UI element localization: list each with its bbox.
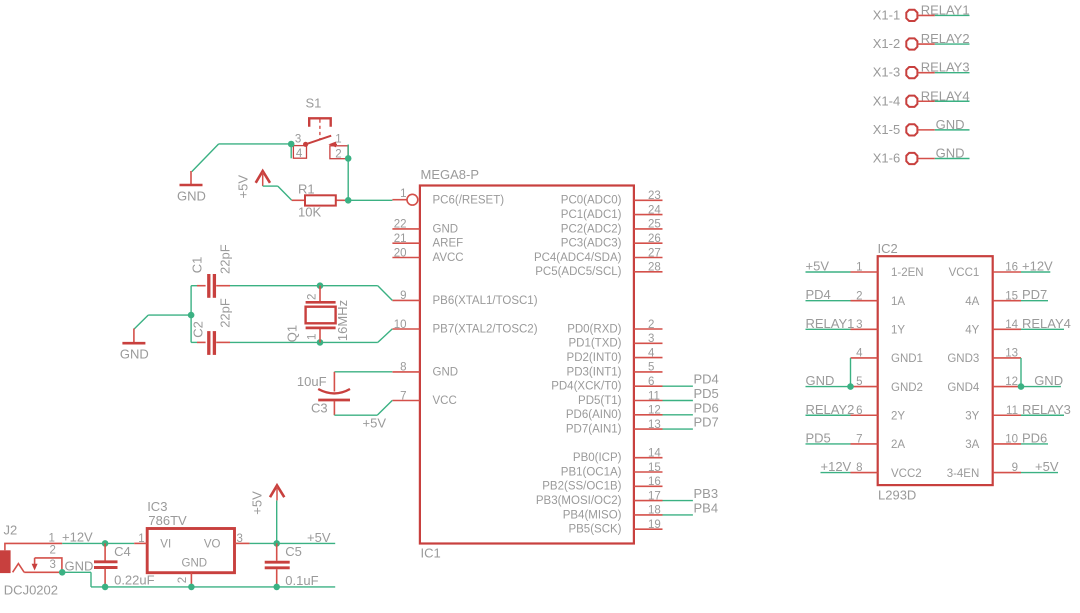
svg-text:10: 10	[1005, 434, 1018, 446]
IC1 pin1 line + bubble	[392, 199, 406, 201]
capacitor C1	[207, 274, 210, 298]
svg-text:9: 9	[1012, 462, 1018, 474]
net PB3 wire+label	[663, 500, 693, 502]
svg-text:10K: 10K	[298, 205, 321, 220]
svg-text:3-4EN: 3-4EN	[947, 468, 980, 480]
svg-text:PD4: PD4	[806, 287, 831, 302]
node XTAL top	[317, 282, 324, 289]
node C4 top	[102, 540, 109, 547]
supply +5V (R1)	[256, 171, 270, 183]
svg-text:L293D: L293D	[878, 488, 916, 503]
svg-text:2: 2	[177, 577, 189, 583]
net RELAY4 wire+label right	[1021, 328, 1064, 330]
IC1 pin 27 PC4(ADC4/SDA)	[634, 257, 663, 259]
svg-text:21: 21	[394, 233, 407, 245]
IC1 pin 28 PC5(ADC5/SCL)	[634, 271, 663, 273]
svg-text:14: 14	[648, 448, 661, 460]
IC2 pin 10 3A	[993, 443, 1021, 445]
net PD6 wire+label	[663, 414, 693, 416]
IC1 pin 20 AVCC	[392, 257, 420, 259]
svg-text:PC4(ADC4/SDA): PC4(ADC4/SDA)	[534, 252, 622, 264]
net GND wire+label left	[806, 386, 851, 388]
net +12V wire+label	[62, 542, 134, 544]
svg-text:X1-1: X1-1	[873, 7, 900, 22]
svg-text:RELAY4: RELAY4	[1022, 316, 1071, 331]
capacitor C5	[276, 543, 278, 560]
IC1 pin 19 PB5(SCK)	[634, 528, 663, 530]
svg-text:GND: GND	[806, 373, 835, 388]
svg-text:RELAY4: RELAY4	[921, 88, 970, 103]
node XTAL bottom	[317, 339, 324, 346]
IC1 pin 3 PD1(TXD)	[634, 342, 663, 344]
svg-text:13: 13	[648, 419, 661, 431]
svg-text:+5V: +5V	[1035, 459, 1059, 474]
IC1 pin 5 PD3(INT1)	[634, 371, 663, 373]
IC2 pin 13 GND3	[993, 357, 1021, 359]
wire IC2 GND3-GND4	[1020, 358, 1022, 387]
svg-text:9: 9	[400, 290, 406, 302]
svg-text:GND: GND	[120, 347, 149, 362]
svg-text:PB4: PB4	[694, 500, 719, 515]
IC IC3 786TV box	[147, 529, 234, 573]
svg-text:IC2: IC2	[878, 241, 898, 256]
svg-text:IC1: IC1	[421, 546, 441, 561]
node R1-right	[345, 197, 352, 204]
IC1 pin 21 AREF	[392, 242, 420, 244]
node J2 gnd	[59, 569, 66, 576]
ground switch	[190, 171, 192, 185]
svg-text:VI: VI	[160, 539, 171, 551]
svg-text:+12V: +12V	[1022, 259, 1053, 274]
svg-text:S1: S1	[306, 96, 322, 111]
svg-text:PC0(ADC0): PC0(ADC0)	[561, 195, 622, 207]
svg-text:PD6: PD6	[1022, 430, 1047, 445]
svg-text:1Y: 1Y	[891, 325, 905, 337]
svg-text:13: 13	[1005, 348, 1018, 360]
gnd rail	[91, 586, 335, 588]
svg-text:786TV: 786TV	[148, 513, 187, 528]
svg-text:2: 2	[307, 294, 319, 300]
net GND wire+label right	[1021, 386, 1061, 388]
svg-text:3: 3	[50, 559, 56, 571]
net PD5 wire+label	[663, 400, 693, 402]
svg-text:4: 4	[648, 347, 655, 359]
svg-text:X1-6: X1-6	[873, 151, 900, 166]
IC1 pin 13 PD7(AIN1)	[634, 428, 663, 430]
svg-text:5: 5	[856, 376, 862, 388]
wire R1 to IC1 pin1	[348, 199, 392, 201]
svg-text:4: 4	[296, 148, 303, 160]
wire IC1 pin8 to C3	[334, 371, 392, 373]
svg-text:0.1uF: 0.1uF	[285, 573, 318, 588]
IC1 pin 17 PB3(MOSI/OC2)	[634, 500, 663, 502]
svg-text:+5V: +5V	[250, 491, 265, 515]
svg-text:C3: C3	[311, 401, 328, 416]
svg-text:PD6: PD6	[694, 400, 719, 415]
svg-text:VCC: VCC	[433, 395, 457, 407]
svg-text:PB4(MISO): PB4(MISO)	[563, 509, 622, 521]
svg-text:GND: GND	[433, 223, 459, 235]
svg-text:28: 28	[648, 262, 661, 274]
svg-text:PB2(SS/OC1B): PB2(SS/OC1B)	[542, 481, 621, 493]
svg-text:PB6(XTAL1/TOSC1): PB6(XTAL1/TOSC1)	[433, 295, 538, 307]
svg-text:PB0(ICP): PB0(ICP)	[573, 452, 622, 464]
IC IC1 MEGA8-P box	[420, 186, 634, 544]
svg-text:PD3(INT1): PD3(INT1)	[567, 366, 622, 378]
svg-text:22: 22	[394, 219, 407, 231]
svg-text:+5V: +5V	[236, 175, 251, 199]
svg-text:16: 16	[1005, 262, 1018, 274]
svg-text:+12V: +12V	[821, 459, 852, 474]
svg-text:10uF: 10uF	[297, 374, 327, 389]
IC2 pin 14 4Y	[993, 328, 1021, 330]
svg-text:4Y: 4Y	[965, 325, 979, 337]
svg-text:GND: GND	[65, 558, 94, 573]
svg-text:4A: 4A	[965, 296, 979, 308]
svg-text:25: 25	[648, 219, 661, 231]
svg-text:PD4(XCK/T0): PD4(XCK/T0)	[551, 381, 621, 393]
svg-text:PD5(T1): PD5(T1)	[578, 395, 622, 407]
node C5 bottom	[273, 584, 280, 591]
svg-text:PB3(MOSI/OC2): PB3(MOSI/OC2)	[536, 495, 622, 507]
svg-text:C5: C5	[285, 544, 302, 559]
svg-text:GND1: GND1	[891, 353, 923, 365]
IC2 pin 6 2Y	[851, 414, 878, 416]
svg-text:C4: C4	[114, 544, 131, 559]
svg-text:26: 26	[648, 233, 661, 245]
svg-text:PC5(ADC5/SCL): PC5(ADC5/SCL)	[535, 266, 621, 278]
svg-text:C2: C2	[191, 321, 206, 338]
svg-text:16: 16	[648, 476, 661, 488]
svg-text:+5V: +5V	[363, 415, 387, 430]
svg-text:R1: R1	[298, 181, 315, 196]
svg-text:DCJ0202: DCJ0202	[4, 583, 58, 598]
IC2 pin 16 VCC1	[993, 271, 1021, 273]
svg-text:3A: 3A	[965, 439, 979, 451]
svg-text:12: 12	[1005, 376, 1018, 388]
svg-text:24: 24	[648, 204, 661, 216]
IC1 pin 15 PB1(OC1A)	[634, 471, 663, 473]
svg-text:X1-4: X1-4	[873, 93, 900, 108]
svg-text:2: 2	[648, 319, 654, 331]
svg-text:3: 3	[237, 533, 243, 545]
net PD7 wire+label right	[1021, 300, 1048, 302]
wire gnd tap	[148, 314, 191, 316]
svg-text:11: 11	[648, 390, 660, 402]
net PD4 wire+label left	[806, 300, 851, 302]
svg-text:X1-5: X1-5	[873, 122, 900, 137]
svg-text:PD5: PD5	[806, 430, 831, 445]
svg-text:VCC1: VCC1	[949, 267, 980, 279]
wire C2 to XTAL2	[230, 341, 378, 343]
svg-text:PB7(XTAL2/TOSC2): PB7(XTAL2/TOSC2)	[433, 323, 538, 335]
IC1 pin 12 PD6(AIN0)	[634, 414, 663, 416]
wire C1-C2 left vertical	[191, 285, 197, 287]
svg-text:1A: 1A	[891, 296, 905, 308]
capacitor C2	[207, 331, 210, 355]
svg-text:3Y: 3Y	[965, 410, 979, 422]
svg-text:+12V: +12V	[62, 530, 93, 545]
svg-text:GND2: GND2	[891, 382, 923, 394]
IC3 pin2 gnd	[190, 573, 192, 587]
svg-text:IC3: IC3	[147, 499, 167, 514]
svg-text:PD7: PD7	[694, 415, 719, 430]
svg-text:18: 18	[648, 505, 661, 517]
J2 pin2 switch contact	[35, 558, 62, 572]
IC1 pin 2 PD0(RXD)	[634, 328, 663, 330]
ground crystal	[133, 329, 135, 344]
IC1 pin 16 PB2(SS/OC1B)	[634, 485, 663, 487]
svg-text:PC2(ADC2): PC2(ADC2)	[561, 223, 622, 235]
svg-text:PD6(AIN0): PD6(AIN0)	[566, 409, 622, 421]
svg-text:6: 6	[648, 376, 654, 388]
IC1 pin 18 PB4(MISO)	[634, 514, 663, 516]
IC2 pin 2 1A	[851, 300, 878, 302]
svg-text:12: 12	[648, 405, 661, 417]
net RELAY2 wire+label	[935, 43, 970, 45]
IC2 pin 3 1Y	[851, 328, 878, 330]
svg-text:RELAY3: RELAY3	[921, 60, 970, 75]
svg-text:11: 11	[1006, 405, 1018, 417]
svg-text:3: 3	[648, 333, 654, 345]
svg-text:20: 20	[394, 247, 407, 259]
net RELAY4 wire+label	[935, 100, 970, 102]
IC1 pin 26 PC3(ADC3)	[634, 242, 663, 244]
contact box 4	[293, 146, 306, 159]
svg-text:PB1(OC1A): PB1(OC1A)	[561, 466, 622, 478]
IC1 pin 23 PC0(ADC0)	[634, 199, 663, 201]
svg-text:1: 1	[856, 262, 862, 274]
IC1 pin 7 VCC	[392, 400, 420, 402]
svg-text:VO: VO	[204, 539, 221, 551]
node C4 bottom	[102, 584, 109, 591]
svg-text:8: 8	[400, 362, 406, 374]
svg-text:17: 17	[648, 490, 661, 502]
IC2 pin 7 2A	[851, 443, 878, 445]
svg-text:16MHz: 16MHz	[335, 300, 350, 341]
IC2 pin 12 GND4	[993, 386, 1021, 388]
svg-text:1: 1	[400, 188, 406, 200]
wire IC3 out	[250, 542, 336, 544]
svg-text:22pF: 22pF	[218, 298, 233, 328]
net GND wire+label	[935, 158, 970, 160]
IC3 pin1	[134, 542, 147, 544]
wire C1 to XTAL1	[230, 285, 378, 287]
node gnd tap	[188, 312, 195, 319]
svg-text:3: 3	[856, 319, 862, 331]
svg-text:PD7: PD7	[1022, 287, 1047, 302]
svg-text:RELAY3: RELAY3	[1022, 402, 1071, 417]
svg-text:7: 7	[856, 434, 862, 446]
svg-text:1: 1	[49, 532, 55, 544]
IC1 pin 4 PD2(INT0)	[634, 357, 663, 359]
svg-text:14: 14	[1005, 319, 1018, 331]
svg-text:8: 8	[856, 462, 862, 474]
svg-text:10: 10	[394, 319, 407, 331]
svg-text:3: 3	[295, 134, 301, 146]
node IC2 gnd left	[847, 383, 854, 390]
net RELAY1 wire+label left	[806, 328, 851, 330]
svg-text:RELAY2: RELAY2	[806, 402, 855, 417]
wire +5V to R1	[263, 185, 278, 187]
net PD7 wire+label	[663, 428, 693, 430]
IC2 pin 15 4A	[993, 300, 1021, 302]
svg-text:15: 15	[648, 462, 661, 474]
IC1 pin 24 PC1(ADC1)	[634, 214, 663, 216]
svg-text:PD1(TXD): PD1(TXD)	[568, 338, 621, 350]
svg-text:PD0(RXD): PD0(RXD)	[567, 323, 621, 335]
svg-text:1-2EN: 1-2EN	[891, 267, 924, 279]
svg-text:PD4: PD4	[694, 372, 719, 387]
svg-text:2Y: 2Y	[891, 410, 905, 422]
svg-text:AVCC: AVCC	[433, 252, 464, 264]
net PB4 wire+label	[663, 514, 693, 516]
svg-text:Q1: Q1	[285, 325, 300, 342]
svg-text:2A: 2A	[891, 439, 905, 451]
svg-text:PD2(INT0): PD2(INT0)	[567, 352, 622, 364]
contact box 2	[330, 146, 348, 159]
svg-text:2: 2	[856, 290, 862, 302]
IC1 pin 9 PB6(XTAL1/TOSC1)	[392, 299, 420, 301]
net RELAY1 wire+label	[935, 14, 970, 16]
IC2 pin 5 GND2	[851, 386, 878, 388]
node C5 top	[273, 540, 280, 547]
svg-text:6: 6	[856, 405, 862, 417]
IC3 pin3	[235, 542, 250, 544]
svg-text:19: 19	[648, 519, 661, 531]
svg-text:X1-2: X1-2	[873, 36, 900, 51]
resistor R1	[292, 199, 305, 201]
svg-text:C1: C1	[190, 257, 205, 274]
net +5V wire+label right	[1021, 472, 1058, 474]
net RELAY2 wire+label left	[806, 414, 851, 416]
IC1 pin 8 GND	[392, 371, 420, 373]
svg-text:PC1(ADC1): PC1(ADC1)	[561, 209, 622, 221]
IC2 pin 8 VCC2	[851, 472, 878, 474]
crystal Q1	[319, 286, 321, 302]
IC2 pin 1 1-2EN	[851, 271, 878, 273]
svg-text:RELAY2: RELAY2	[921, 31, 970, 46]
wire J2 to gnd rail	[62, 571, 91, 573]
svg-text:VCC2: VCC2	[891, 468, 922, 480]
svg-text:4: 4	[856, 348, 863, 360]
node switch pin3	[288, 141, 295, 148]
svg-text:2: 2	[335, 149, 341, 161]
svg-text:PD7(AIN1): PD7(AIN1)	[566, 424, 622, 436]
svg-text:23: 23	[648, 190, 661, 202]
svg-text:MEGA8-P: MEGA8-P	[421, 167, 480, 182]
IC1 pin 11 PD5(T1)	[634, 400, 663, 402]
svg-text:5: 5	[648, 362, 654, 374]
IC1 pin 14 PB0(ICP)	[634, 457, 663, 459]
svg-text:1: 1	[138, 533, 144, 545]
IC2 pin 11 3Y	[993, 414, 1021, 416]
svg-text:GND: GND	[177, 188, 206, 203]
IC2 pin 4 GND1	[851, 357, 878, 359]
svg-text:2: 2	[50, 545, 56, 557]
node IC3 gnd	[188, 584, 195, 591]
wire IC2 GND1-GND2	[850, 358, 852, 387]
svg-text:J2: J2	[4, 523, 18, 538]
svg-text:PD5: PD5	[694, 386, 719, 401]
capacitor C3	[318, 389, 350, 393]
IC1 pin 10 PB7(XTAL2/TOSC2)	[392, 328, 420, 330]
wire switch pin2 down	[347, 145, 349, 201]
svg-text:GND: GND	[1034, 373, 1063, 388]
svg-text:GND: GND	[182, 558, 208, 570]
svg-text:+5V: +5V	[307, 530, 331, 545]
net RELAY3 wire+label right	[1021, 414, 1064, 416]
svg-text:GND4: GND4	[947, 382, 980, 394]
svg-text:7: 7	[400, 390, 406, 402]
svg-text:GND: GND	[936, 146, 965, 161]
net +12V wire+label right	[1021, 271, 1050, 273]
svg-text:+5V: +5V	[806, 259, 830, 274]
svg-text:27: 27	[648, 247, 661, 259]
svg-text:PB3: PB3	[694, 486, 719, 501]
J2 pin3 tip contact	[13, 564, 25, 573]
svg-text:X1-3: X1-3	[873, 65, 900, 80]
capacitor C4	[104, 543, 106, 560]
svg-text:PC6(/RESET): PC6(/RESET)	[433, 195, 505, 207]
IC1 pin 6 PD4(XCK/T0)	[634, 385, 663, 387]
svg-text:AREF: AREF	[433, 238, 464, 250]
net GND wire+label	[935, 129, 970, 131]
svg-text:PB5(SCK): PB5(SCK)	[568, 524, 621, 536]
svg-text:RELAY1: RELAY1	[921, 3, 970, 18]
IC IC2 L293D box	[878, 256, 993, 485]
wire C3 to VCC pin7	[333, 401, 335, 415]
net +12V wire+label left	[821, 472, 851, 474]
IC1 pin 25 PC2(ADC2)	[634, 228, 663, 230]
node switch pin2	[345, 155, 352, 162]
svg-text:GND3: GND3	[947, 353, 979, 365]
IC1 pin 22 GND	[392, 228, 420, 230]
svg-text:GND: GND	[433, 366, 459, 378]
supply +5V (C5)	[276, 501, 278, 544]
net RELAY3 wire+label	[935, 72, 970, 74]
svg-text:22pF: 22pF	[218, 244, 233, 274]
J2 pin1	[5, 543, 62, 550]
IC2 pin 9 3-4EN	[993, 472, 1021, 474]
svg-text:PC3(ADC3): PC3(ADC3)	[561, 238, 622, 250]
node IC2 gnd right	[1018, 383, 1025, 390]
net PD5 wire+label left	[806, 443, 851, 445]
svg-text:1: 1	[307, 334, 319, 340]
net +5V wire+label left	[806, 271, 851, 273]
wire gnd-to-switch	[219, 143, 292, 145]
svg-text:1: 1	[335, 134, 341, 146]
net PD6 wire+label right	[1021, 443, 1048, 445]
net PD4 wire+label	[663, 385, 693, 387]
svg-text:RELAY1: RELAY1	[806, 316, 855, 331]
svg-text:0.22uF: 0.22uF	[114, 572, 155, 587]
svg-text:GND: GND	[936, 117, 965, 132]
svg-text:15: 15	[1005, 290, 1018, 302]
